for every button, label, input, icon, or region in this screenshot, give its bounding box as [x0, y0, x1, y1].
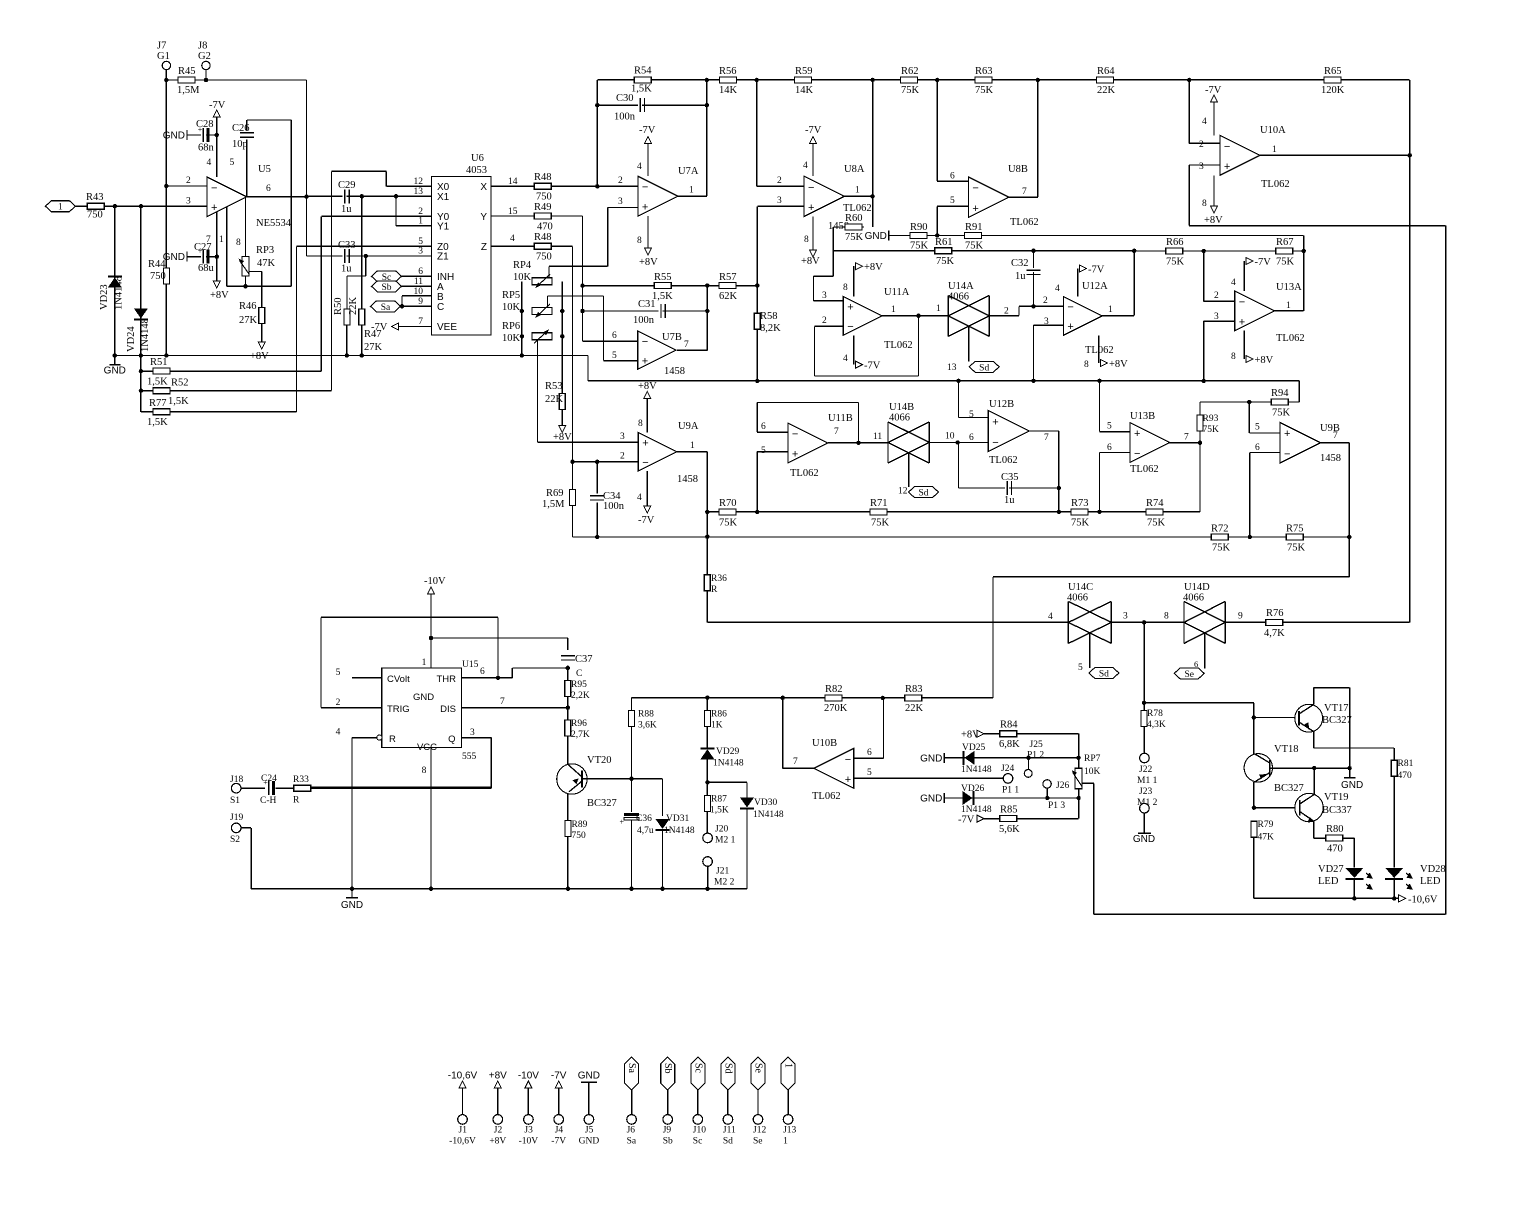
junction — [629, 777, 633, 781]
svg-text:75K: 75K — [901, 85, 920, 96]
wire — [1249, 432, 1280, 434]
svg-text:-7V: -7V — [209, 100, 226, 111]
svg-text:−: − — [642, 182, 648, 194]
svg-text:470: 470 — [537, 222, 553, 233]
svg-text:R83: R83 — [905, 684, 923, 695]
node Sd tag U14B — [909, 487, 939, 498]
wire — [141, 390, 332, 392]
svg-text:2,7K: 2,7K — [571, 730, 590, 740]
wire — [872, 80, 874, 227]
svg-text:J24: J24 — [1001, 764, 1014, 774]
svg-text:2: 2 — [186, 176, 191, 186]
wire — [1353, 879, 1355, 899]
wire — [858, 403, 860, 443]
wire — [1111, 621, 1184, 623]
wire — [511, 668, 513, 678]
junction — [360, 353, 364, 357]
svg-text:6: 6 — [266, 184, 271, 194]
svg-text:U14C: U14C — [1068, 582, 1093, 593]
connector J12 Se — [751, 1057, 765, 1090]
wire — [1243, 261, 1245, 291]
wire — [853, 335, 855, 364]
wire — [1349, 688, 1351, 778]
svg-text:1N4148: 1N4148 — [664, 826, 695, 836]
svg-text:R: R — [389, 734, 396, 745]
junction — [856, 441, 860, 445]
junction — [705, 535, 709, 539]
wire — [1260, 154, 1410, 156]
wire — [1134, 250, 1304, 252]
wire — [842, 195, 872, 197]
wire — [596, 502, 598, 537]
junction — [1198, 441, 1202, 445]
wire — [246, 120, 248, 131]
wire — [1213, 102, 1215, 135]
op-amp U7A 1458 — [638, 176, 678, 216]
svg-text:+8V: +8V — [553, 432, 572, 443]
wire — [548, 266, 550, 278]
svg-text:-7V: -7V — [639, 125, 656, 136]
svg-text:C29: C29 — [338, 180, 356, 191]
wire — [587, 356, 589, 381]
wire — [361, 196, 363, 309]
wire — [320, 617, 322, 707]
wire — [1143, 813, 1145, 833]
op-amp U13B TL062 — [1130, 423, 1170, 463]
svg-text:R75: R75 — [1286, 524, 1304, 535]
junction — [955, 440, 959, 444]
svg-text:R64: R64 — [1097, 66, 1115, 77]
wire — [756, 329, 758, 381]
wire — [707, 866, 709, 888]
junction — [755, 78, 759, 82]
svg-text:GND: GND — [1341, 780, 1363, 791]
op-amp U10A TL062 — [1220, 135, 1260, 175]
wire — [1445, 226, 1447, 915]
junction — [629, 887, 633, 891]
svg-text:3: 3 — [618, 197, 623, 207]
VT19 base bar — [1299, 800, 1301, 816]
junction — [1142, 620, 1146, 624]
junction — [1302, 249, 1306, 253]
svg-text:75K: 75K — [1071, 518, 1090, 529]
wire — [538, 441, 639, 443]
wire — [216, 211, 218, 281]
svg-text:R59: R59 — [795, 66, 813, 77]
wire — [573, 461, 639, 463]
svg-text:R91: R91 — [965, 222, 983, 233]
resistor R56 — [719, 77, 736, 83]
VT17 emitter — [1299, 722, 1314, 732]
junction — [360, 194, 364, 198]
svg-text:14K: 14K — [719, 85, 738, 96]
svg-text:4: 4 — [637, 493, 642, 503]
connector J7 G1 — [162, 61, 170, 69]
wire — [491, 215, 583, 217]
svg-text:TL062: TL062 — [1276, 333, 1305, 344]
svg-text:R57: R57 — [719, 272, 737, 283]
svg-text:75K: 75K — [965, 241, 984, 252]
svg-text:8: 8 — [1202, 199, 1207, 209]
resistor R72 — [1211, 534, 1228, 540]
wire — [677, 349, 707, 351]
svg-text:M2 2: M2 2 — [714, 878, 735, 888]
wire — [1034, 324, 1064, 326]
wire — [1298, 381, 1300, 402]
svg-text:1: 1 — [58, 203, 63, 213]
resistor R59 — [795, 77, 812, 83]
wire — [245, 276, 247, 286]
wire — [833, 226, 864, 228]
junction — [755, 283, 759, 287]
junction — [705, 309, 709, 313]
svg-text:1,5M: 1,5M — [542, 499, 565, 510]
svg-text:22K: 22K — [348, 297, 359, 316]
svg-text:1458: 1458 — [664, 366, 685, 377]
svg-text:750: 750 — [150, 271, 166, 282]
wire — [828, 442, 888, 444]
wire — [1254, 897, 1399, 899]
svg-text:−: − — [992, 437, 998, 449]
svg-text:J9: J9 — [663, 1126, 672, 1136]
resistor R91 — [965, 233, 982, 239]
svg-text:R54: R54 — [634, 66, 652, 77]
diode VD26 1N4148 — [973, 791, 975, 805]
wire — [402, 275, 432, 277]
svg-text:R89: R89 — [572, 820, 588, 830]
svg-text:+: + — [847, 302, 853, 314]
svg-text:4,7u: 4,7u — [637, 826, 654, 836]
wire — [1078, 734, 1080, 769]
svg-text:+: + — [1284, 428, 1290, 440]
wire — [1348, 443, 1350, 577]
svg-text:X1: X1 — [437, 192, 450, 203]
resistor R36 — [704, 575, 710, 591]
wire — [706, 782, 708, 795]
junction — [364, 254, 368, 258]
wire — [1314, 687, 1350, 689]
resistor R69 — [570, 490, 576, 506]
wire — [549, 265, 608, 267]
junction — [595, 184, 599, 188]
svg-text:J5: J5 — [585, 1126, 594, 1136]
wire — [491, 245, 573, 247]
junction — [1202, 249, 1206, 253]
wire — [462, 677, 513, 679]
svg-text:+8V: +8V — [489, 1071, 507, 1082]
svg-text:8: 8 — [637, 236, 642, 246]
wire — [352, 737, 377, 739]
resistor R52 — [153, 388, 170, 394]
svg-text:−: − — [972, 183, 978, 195]
wire — [1313, 821, 1315, 838]
svg-text:3: 3 — [822, 291, 827, 301]
svg-text:+: + — [1224, 161, 1230, 173]
wire — [1203, 251, 1205, 301]
analog switch U14C 4066 — [1067, 601, 1069, 643]
svg-text:C-H: C-H — [260, 796, 277, 806]
svg-text:J21: J21 — [716, 867, 729, 877]
resistor R95 — [565, 681, 571, 697]
node output U5 — [304, 194, 308, 198]
wire — [166, 185, 207, 187]
resistor R85 — [1000, 816, 1017, 822]
wire — [1094, 913, 1446, 915]
svg-text:VD23: VD23 — [99, 284, 110, 310]
IC U6 4053 — [432, 177, 492, 336]
junction — [520, 334, 524, 338]
wire — [187, 134, 217, 136]
svg-text:8: 8 — [804, 235, 809, 245]
wire — [1254, 717, 1299, 719]
svg-text:-7V: -7V — [371, 322, 388, 333]
power +8V U10A — [1211, 206, 1218, 213]
op-amp U12A TL062 — [1063, 297, 1102, 336]
op-amp U8A TL062 — [804, 176, 844, 216]
svg-text:LED: LED — [1318, 876, 1339, 887]
wire — [1099, 381, 1101, 432]
svg-text:75K: 75K — [975, 85, 994, 96]
svg-text:3,6K: 3,6K — [638, 721, 657, 731]
resistor R61 — [935, 248, 952, 254]
svg-text:4066: 4066 — [1183, 593, 1204, 604]
svg-text:TRIG: TRIG — [387, 704, 410, 715]
junction — [139, 353, 143, 357]
svg-text:BC327: BC327 — [587, 798, 617, 809]
svg-text:GND: GND — [1133, 834, 1155, 845]
junction — [1045, 796, 1049, 800]
op-amp U12B TL062 — [988, 411, 1029, 452]
svg-text:11: 11 — [873, 432, 882, 442]
junction — [570, 460, 574, 464]
junction — [755, 510, 759, 514]
wire — [401, 296, 403, 307]
svg-text:75K: 75K — [719, 518, 738, 529]
svg-text:+: + — [972, 203, 978, 215]
svg-text:GND: GND — [578, 1071, 600, 1082]
ground bottom rail — [351, 889, 353, 898]
wire — [1313, 688, 1315, 705]
wire — [1100, 452, 1131, 454]
wire — [567, 697, 569, 708]
svg-text:X: X — [480, 182, 487, 193]
svg-text:+: + — [1067, 321, 1073, 333]
potentiometer RP7 — [1075, 768, 1082, 789]
svg-text:R81: R81 — [1398, 759, 1414, 769]
svg-text:3: 3 — [470, 728, 475, 738]
svg-text:VD27: VD27 — [1318, 864, 1344, 875]
svg-text:750: 750 — [536, 192, 552, 203]
wire — [1253, 837, 1255, 898]
resistor R84 — [1000, 731, 1017, 737]
wire — [814, 275, 834, 277]
wire — [1250, 452, 1280, 454]
wire — [597, 79, 1409, 81]
junction — [520, 353, 524, 357]
svg-text:LED: LED — [1420, 876, 1441, 887]
svg-text:2: 2 — [1043, 296, 1048, 306]
resistor R50 — [344, 309, 350, 325]
svg-text:R77: R77 — [149, 398, 167, 409]
svg-text:7: 7 — [793, 757, 798, 767]
junction — [215, 133, 219, 137]
wire — [958, 443, 960, 489]
svg-text:R49: R49 — [534, 202, 552, 213]
svg-text:R76: R76 — [1266, 608, 1284, 619]
diode VD27 LED — [1345, 878, 1363, 880]
capacitor C34 — [590, 493, 604, 497]
svg-text:−: − — [211, 182, 217, 194]
junction — [1097, 510, 1101, 514]
junction — [429, 636, 433, 640]
svg-text:1,5K: 1,5K — [147, 377, 168, 388]
wire — [1248, 402, 1250, 433]
svg-text:VD24: VD24 — [126, 326, 137, 352]
analog switch U14A 4066 — [947, 295, 949, 336]
svg-text:4: 4 — [1231, 278, 1236, 288]
svg-text:C33: C33 — [338, 240, 356, 251]
wire — [632, 778, 663, 780]
svg-text:75K: 75K — [871, 518, 890, 529]
svg-text:VD28: VD28 — [1420, 864, 1446, 875]
svg-text:R86: R86 — [711, 710, 727, 720]
wire — [395, 196, 397, 226]
resistor R47 — [359, 309, 365, 325]
op-amp U13A TL062 — [1235, 291, 1275, 331]
svg-text:5: 5 — [336, 668, 341, 678]
wire — [1093, 783, 1095, 914]
svg-text:+: + — [1134, 428, 1140, 440]
svg-text:C: C — [437, 302, 444, 313]
resistor R86 — [704, 711, 710, 727]
wire — [346, 325, 348, 356]
svg-text:3: 3 — [1214, 312, 1219, 322]
wire — [1077, 269, 1079, 297]
capacitor C30 — [638, 98, 642, 112]
svg-text:750: 750 — [536, 252, 552, 263]
resistor R78 — [1141, 711, 1147, 727]
wire — [631, 698, 633, 711]
svg-text:BC337: BC337 — [1322, 805, 1352, 816]
wire — [1144, 702, 1254, 704]
svg-text:1: 1 — [422, 658, 427, 668]
svg-text:2: 2 — [1214, 291, 1219, 301]
potentiometer RP5 — [532, 308, 552, 315]
svg-text:+: + — [620, 818, 625, 827]
svg-text:R33: R33 — [293, 775, 309, 785]
wire — [462, 707, 568, 709]
svg-text:+8V: +8V — [1255, 355, 1274, 366]
diode VD25 1N4148 — [962, 751, 964, 765]
LED arrows VD28 — [1406, 873, 1412, 889]
svg-text:1u: 1u — [341, 204, 352, 215]
op-amp U10B TL062 — [814, 748, 854, 788]
svg-text:U14A: U14A — [948, 281, 974, 292]
wire — [853, 266, 855, 297]
svg-text:+: + — [1239, 316, 1245, 328]
wire — [572, 462, 574, 490]
wire — [261, 324, 263, 343]
junction — [139, 204, 143, 208]
op-amp U11B TL062 — [788, 423, 828, 463]
wire — [812, 217, 814, 251]
svg-text:Sd: Sd — [918, 489, 928, 499]
svg-text:+: + — [792, 449, 798, 461]
svg-text:R85: R85 — [1000, 805, 1018, 816]
wire — [297, 245, 432, 247]
svg-text:-7V: -7V — [551, 1071, 567, 1082]
svg-text:1N4148: 1N4148 — [114, 276, 125, 310]
wire — [1199, 431, 1201, 443]
capacitor C36 — [624, 813, 639, 816]
connector J25 P1.2 — [1024, 770, 1032, 778]
wire — [782, 698, 784, 769]
wire — [537, 340, 539, 442]
svg-text:VEE: VEE — [437, 322, 457, 333]
wire — [757, 431, 788, 433]
svg-text:Sb: Sb — [663, 1137, 673, 1147]
svg-text:VD30: VD30 — [754, 798, 777, 808]
wire — [1189, 225, 1445, 227]
wire — [757, 205, 804, 207]
svg-text:5: 5 — [950, 196, 955, 206]
wire — [706, 759, 708, 782]
wire — [647, 216, 649, 248]
resistor R51 — [153, 368, 170, 374]
svg-text:TL062: TL062 — [989, 455, 1018, 466]
wire — [608, 207, 638, 209]
wire — [352, 677, 382, 679]
svg-text:+8V: +8V — [489, 1137, 506, 1147]
wire — [812, 144, 814, 177]
svg-text:TL062: TL062 — [884, 340, 913, 351]
svg-text:13: 13 — [414, 187, 424, 197]
svg-text:C37: C37 — [575, 654, 593, 665]
resistor R62 — [901, 77, 918, 83]
wire — [1393, 776, 1395, 867]
wire — [1249, 401, 1299, 403]
svg-text:9: 9 — [418, 297, 423, 307]
svg-text:Y1: Y1 — [437, 221, 450, 232]
wire — [246, 140, 248, 197]
svg-text:1: 1 — [689, 186, 694, 196]
svg-text:+: + — [845, 774, 851, 786]
svg-text:R52: R52 — [171, 378, 189, 389]
svg-text:7: 7 — [1184, 433, 1189, 443]
svg-text:VT17: VT17 — [1324, 703, 1349, 714]
junction — [1202, 379, 1206, 383]
svg-text:7: 7 — [684, 340, 689, 350]
svg-text:11: 11 — [414, 277, 423, 287]
svg-text:GND: GND — [104, 366, 126, 377]
wire — [936, 80, 938, 181]
svg-text:75K: 75K — [910, 241, 929, 252]
wire — [491, 185, 638, 187]
svg-text:GND: GND — [163, 252, 185, 263]
wire — [1393, 879, 1395, 899]
svg-text:U14B: U14B — [889, 402, 914, 413]
svg-text:R65: R65 — [1324, 66, 1342, 77]
svg-text:5: 5 — [230, 158, 235, 168]
wire — [361, 325, 363, 356]
svg-text:1N4148: 1N4148 — [140, 318, 151, 352]
svg-text:R95: R95 — [571, 680, 587, 690]
svg-text:6: 6 — [867, 748, 872, 758]
svg-text:8: 8 — [1231, 352, 1236, 362]
svg-text:1: 1 — [1286, 301, 1291, 311]
svg-text:5: 5 — [612, 351, 617, 361]
svg-text:U10A: U10A — [1260, 125, 1286, 136]
